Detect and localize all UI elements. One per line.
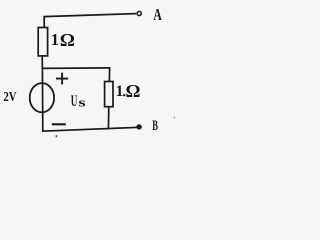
- svg-text:s: s: [78, 94, 85, 109]
- svg-text:Ω: Ω: [60, 30, 75, 50]
- wire: left vertical through voltage source: [41, 68, 43, 131]
- polarity plus sign: [56, 73, 68, 85]
- resistor R1 (1 ohm) body: [38, 28, 47, 56]
- wire: R2 top lead: [108, 68, 110, 82]
- wire: bottom from source to terminal B: [42, 127, 137, 131]
- terminal A (open circle): [137, 11, 141, 15]
- speck artifact below minus: [56, 135, 58, 137]
- svg-text:1: 1: [51, 30, 59, 49]
- terminal B (dot): [136, 124, 141, 129]
- wire: top lead from R1 up and right to terminal A: [44, 14, 136, 28]
- speck artifact near B: [174, 117, 176, 119]
- svg-text:A: A: [153, 5, 162, 24]
- wire: R2 bottom lead down to bottom wire: [107, 107, 109, 130]
- voltage source Us (circle): [30, 83, 54, 112]
- wire: R1 bottom lead down to middle node: [41, 56, 43, 69]
- svg-text:1: 1: [116, 83, 124, 100]
- svg-text:U: U: [71, 93, 78, 110]
- resistor R2 (1 ohm) body: [105, 82, 113, 107]
- svg-text:2V: 2V: [3, 90, 16, 105]
- svg-text:Ω: Ω: [126, 81, 141, 101]
- svg-text:B: B: [152, 118, 158, 134]
- wire: middle horizontal from source top node to R2 top: [42, 67, 111, 70]
- polarity minus sign: [52, 123, 66, 125]
